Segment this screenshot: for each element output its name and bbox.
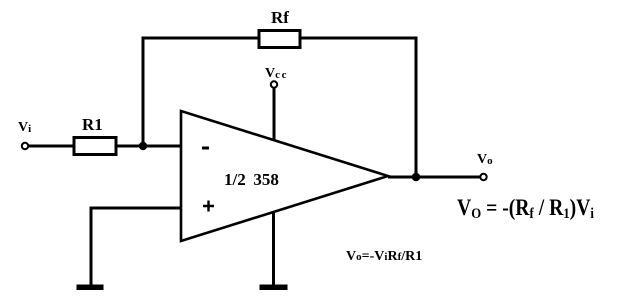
svg-text:Vo=-ViRf/R1: Vo=-ViRf/R1 (346, 249, 422, 264)
wire: feedback right vertical (415, 37, 418, 178)
wire: non-inverting input horizontal (90, 207, 183, 210)
resistor R1 (74, 138, 116, 155)
node A (junction of R1 and feedback) (139, 142, 147, 150)
terminal Vi (input) (22, 143, 28, 149)
svg-text:Vi: Vi (18, 120, 31, 135)
svg-text:R1: R1 (82, 115, 103, 134)
svg-text:Rf: Rf (271, 8, 289, 27)
node B (output/feedback junction) (412, 173, 421, 182)
resistor Rf (259, 31, 300, 48)
ground (op-amp negative supply) (260, 285, 288, 291)
svg-text:1/2 358: 1/2 358 (224, 170, 279, 189)
wire: op-amp output (388, 176, 481, 179)
label: inverting input minus (202, 147, 209, 150)
svg-text:Vo: Vo (477, 152, 493, 167)
wire: R1 to op-amp inverting input (116, 145, 182, 148)
wire: feedback top horizontal (142, 37, 418, 40)
ground (non-inverting input) (77, 285, 104, 291)
terminal Vo (output) (480, 174, 486, 180)
wire: Vi to R1 (29, 145, 76, 148)
wire: Vcc to op-amp top (273, 88, 276, 141)
terminal Vcc (271, 81, 277, 87)
svg-text:Vcc: Vcc (265, 66, 288, 81)
wire: non-inverting to ground vertical (90, 207, 93, 286)
wire: op-amp bottom to ground vertical (272, 212, 275, 285)
label: non-inverting input plus (203, 201, 214, 212)
wire: feedback left vertical (142, 37, 145, 148)
op-amp U1 (1/2 358) (181, 111, 388, 241)
svg-text:VO = -(Rf / R1)Vi: VO = -(Rf / R1)Vi (457, 195, 594, 222)
